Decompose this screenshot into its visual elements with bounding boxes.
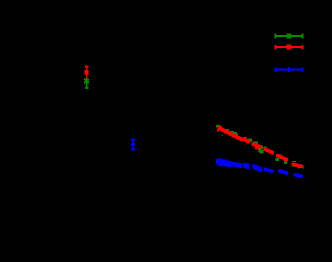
- green data series: [216, 125, 304, 169]
- red data series: [217, 126, 303, 168]
- legend sample: blue series: [275, 67, 304, 72]
- green errorbar point at x=86.6: [84, 79, 89, 89]
- blue data series: [216, 159, 303, 179]
- red errorbar point at x=86.6: [85, 65, 89, 78]
- legend sample: green series: [275, 33, 304, 38]
- blue errorbar point at x=133: [131, 138, 136, 150]
- legend sample: red series: [275, 45, 304, 50]
